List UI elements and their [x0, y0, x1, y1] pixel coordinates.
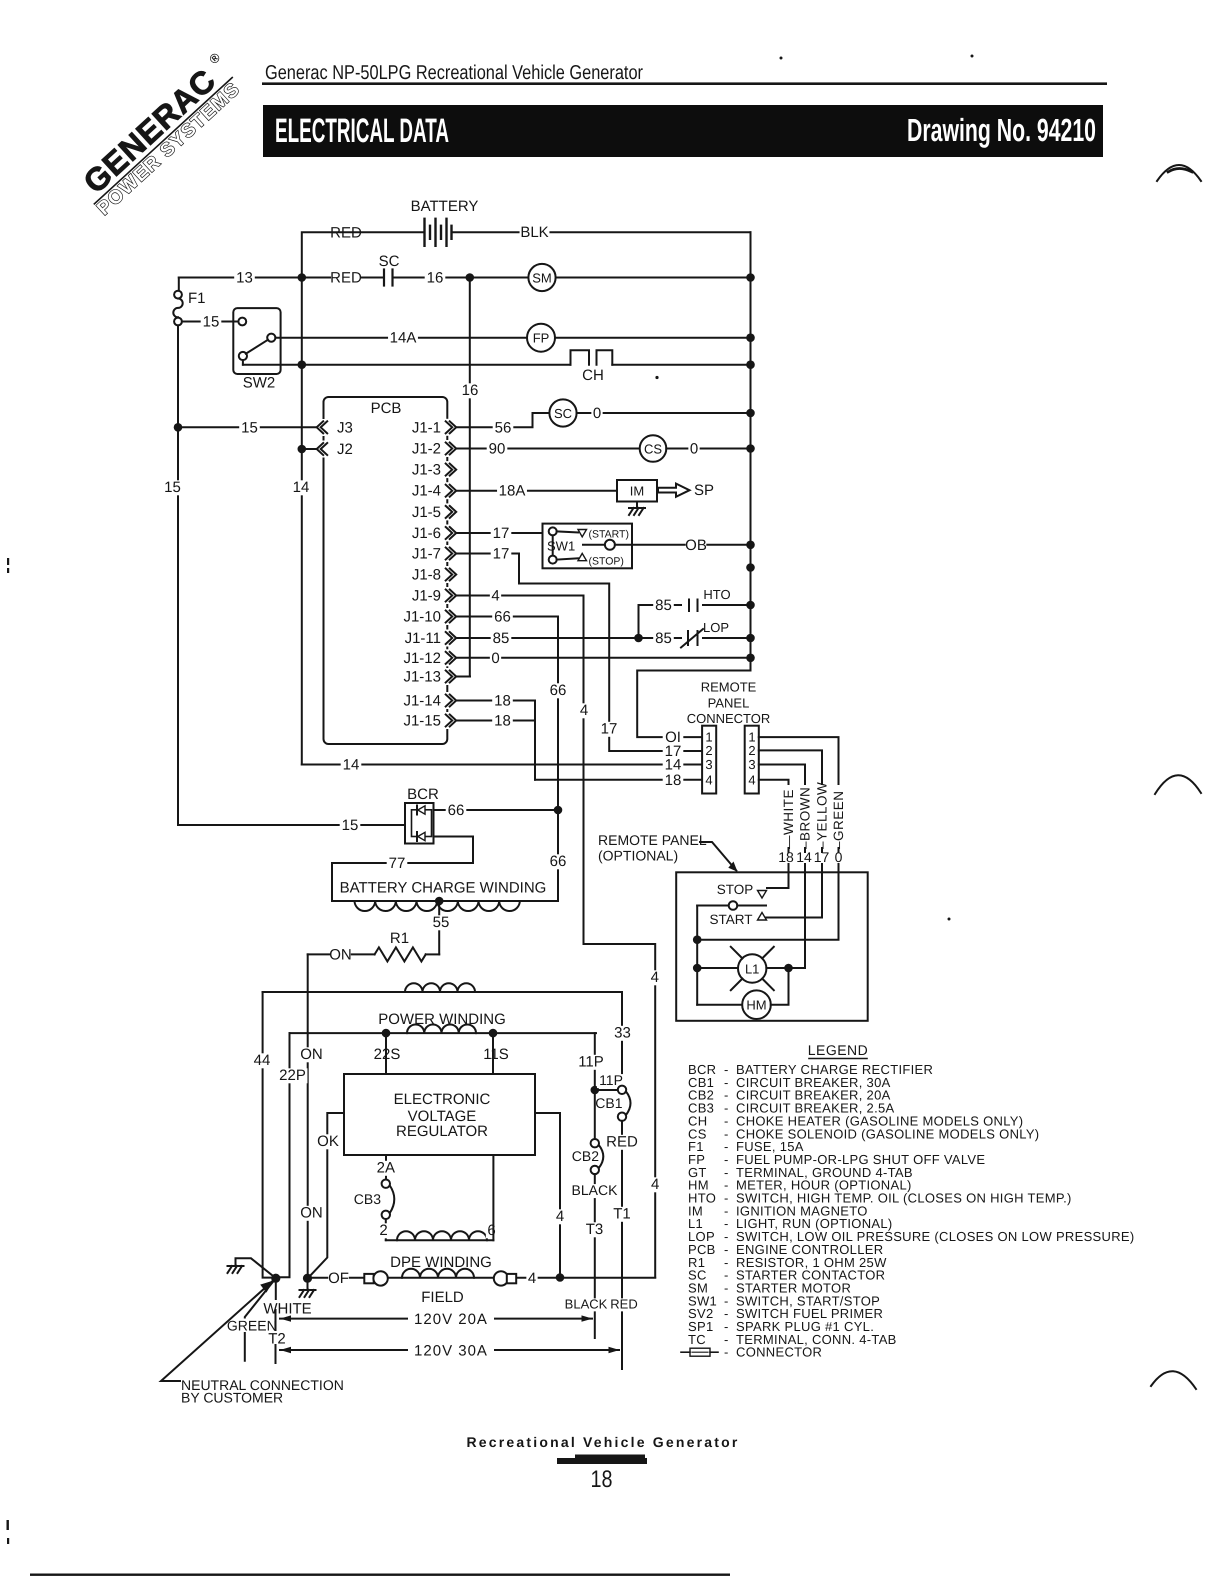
label 44 [252, 1053, 273, 1068]
svg-text:CONNECTOR: CONNECTOR [687, 711, 771, 726]
wire BCR net 66 [434, 809, 559, 811]
remote panel connector plug 2 [745, 726, 759, 794]
svg-text:J1-11: J1-11 [405, 630, 441, 647]
svg-text:START: START [709, 912, 752, 927]
junction 11S [489, 1029, 498, 1038]
label 15 (J3) [239, 421, 260, 436]
spark plug arrow SP1 [658, 484, 690, 497]
junction bus extra [746, 563, 755, 572]
svg-text:J1-3: J1-3 [412, 462, 441, 479]
svg-text:BCR: BCR [407, 786, 439, 803]
svg-text:SP: SP [694, 482, 714, 499]
svg-text:OB: OB [685, 537, 707, 554]
label 0 (CS) [688, 442, 699, 457]
speck [655, 376, 658, 379]
connector J3 [314, 419, 332, 436]
wire 14 to J2 [302, 448, 317, 450]
svg-text:16: 16 [427, 270, 444, 287]
connector pin J1-12 [444, 649, 457, 666]
svg-text:18: 18 [494, 693, 511, 710]
wire EVR right pin net 4 [535, 1113, 560, 1278]
DPE winding [386, 1239, 494, 1241]
SW1 start contact [549, 527, 557, 535]
label 17 (vertical) [599, 722, 620, 737]
wire SW1 net OB [615, 544, 751, 546]
junction field net 4 [556, 1273, 565, 1282]
svg-text:11P: 11P [578, 1054, 604, 1071]
svg-text:L1: L1 [745, 962, 759, 977]
fuse F1 [174, 291, 182, 299]
svg-text:4: 4 [748, 772, 755, 787]
switch common remote [697, 905, 729, 907]
label 0 (SC) [591, 406, 602, 421]
wire CB3 to DPE winding [385, 1219, 387, 1240]
junction 22S [382, 1029, 391, 1038]
svg-text:CB2: CB2 [572, 1148, 599, 1164]
svg-text:13: 13 [236, 270, 253, 287]
label 16 [425, 271, 446, 286]
label ON (low) [301, 1206, 322, 1221]
wire net 18 to pin 4 [535, 779, 702, 781]
dimension 120V 20A [280, 1318, 407, 1320]
junction node 16 [466, 273, 475, 282]
wire J1-2 to CS [456, 448, 640, 450]
svg-text:STOP: STOP [717, 882, 754, 897]
svg-text:16: 16 [462, 382, 479, 399]
svg-text:J1-8: J1-8 [412, 567, 441, 584]
svg-text:18A: 18A [499, 483, 526, 500]
label OF [328, 1271, 349, 1286]
label 66 (BCR) [446, 803, 467, 818]
svg-text:J1-2: J1-2 [412, 441, 441, 458]
battery BT [423, 219, 425, 246]
label 15 (F1-SW2) [201, 315, 222, 330]
svg-text:44: 44 [254, 1052, 271, 1069]
wire 33 vertical [621, 992, 623, 1086]
wire J1-1 to SC contactor [456, 413, 549, 427]
label WHITE [275, 1278, 277, 1299]
svg-text:4: 4 [651, 1176, 659, 1193]
label 17 (J1-7) [491, 547, 512, 562]
svg-text:17: 17 [493, 525, 510, 542]
legend row CONNECTOR symbol [681, 1351, 690, 1353]
svg-text:2: 2 [748, 743, 755, 758]
connector pin J1-1 [444, 419, 457, 436]
wire RED to battery [302, 232, 425, 277]
svg-text:0: 0 [690, 441, 698, 458]
starter contactor SC [549, 399, 576, 426]
junction 66 [554, 806, 563, 815]
svg-text:18: 18 [778, 849, 794, 865]
wire J1-13 to net 16 [456, 676, 470, 678]
label 2A [376, 1161, 397, 1176]
label 14A [388, 331, 418, 346]
svg-text:Generac NP-50LPG Recreational: Generac NP-50LPG Recreational Vehicle Ge… [265, 62, 643, 84]
footer bar [575, 1455, 645, 1460]
svg-text:J1-9: J1-9 [412, 588, 441, 605]
svg-text:SW1: SW1 [547, 539, 575, 554]
svg-text:(OPTIONAL): (OPTIONAL) [598, 848, 678, 864]
wire EVR pin 11S [492, 1033, 494, 1074]
connector pin J1-15 [444, 712, 457, 729]
connector pin J1-3 [444, 461, 457, 478]
label BLACK (T3) [572, 1184, 617, 1198]
svg-text:ELECTRICAL DATA: ELECTRICAL DATA [275, 112, 449, 150]
SW1 stop contact [549, 556, 557, 564]
svg-text:66: 66 [550, 853, 567, 870]
label T1 [612, 1207, 633, 1222]
svg-text:15: 15 [342, 817, 359, 834]
svg-text:OF: OF [328, 1270, 349, 1287]
battery charge winding [332, 900, 558, 902]
label 15 (vertical) [162, 480, 183, 495]
wire J1-14 net 18 [456, 701, 535, 780]
svg-text:4: 4 [491, 588, 499, 605]
svg-text:BATTERY CHARGE WINDING: BATTERY CHARGE WINDING [340, 880, 547, 897]
svg-text:TC: TC [688, 1332, 706, 1347]
junction node 14 [298, 360, 307, 369]
svg-text:R1: R1 [390, 930, 409, 947]
svg-text:90: 90 [489, 441, 506, 458]
wire net 13 / RED / 16 to SM [179, 277, 751, 279]
remote panel box [676, 872, 868, 1021]
label T3 [584, 1222, 605, 1237]
svg-text:14: 14 [796, 849, 812, 865]
junction bus 14 [746, 360, 755, 369]
wire net 14A to FP [275, 337, 750, 339]
wire J1-11 net 85 to LOP [456, 637, 750, 639]
header black bar [263, 105, 1103, 157]
wire J1-6 to SW1 [456, 532, 549, 534]
label GREEN [226, 1319, 266, 1333]
svg-text:PCB: PCB [371, 400, 402, 417]
switch LOP low oil pressure [682, 630, 702, 647]
svg-text:FP: FP [533, 331, 550, 346]
label BLACK (low) [565, 1298, 607, 1311]
svg-text:33: 33 [614, 1025, 631, 1042]
label 85 (LOP) [653, 631, 674, 646]
connector pin J1-6 [444, 525, 457, 542]
label 17 (pin 2) [663, 744, 684, 759]
svg-text:OI: OI [665, 729, 681, 746]
svg-text:—WHITE: —WHITE [781, 789, 796, 849]
svg-text:14: 14 [293, 479, 310, 496]
svg-text:J1-12: J1-12 [403, 650, 441, 667]
wire 85 branch to HTO [639, 605, 751, 638]
svg-text:RED: RED [610, 1297, 637, 1312]
wire 44 vertical [263, 992, 272, 1278]
wire GREEN [245, 1278, 276, 1361]
svg-text:F1: F1 [188, 290, 206, 307]
wire J1-12 net 0 [456, 657, 750, 659]
fuel pump FP [527, 324, 555, 352]
choke heater CH [571, 350, 590, 364]
svg-text:BLACK: BLACK [565, 1297, 608, 1312]
wire pin2 YELLOW [759, 750, 822, 784]
wire 15 to J3 [178, 426, 317, 428]
wire T1/RED vertical [621, 1121, 623, 1369]
wire BLK battery to bus [452, 231, 751, 233]
label PCB [364, 399, 409, 414]
label RED (T1) [607, 1135, 637, 1150]
wire R1 to tap [426, 953, 440, 955]
SW2 arm [246, 340, 268, 354]
junction bus CS-0 [746, 444, 755, 453]
svg-text:Drawing No. 94210: Drawing No. 94210 [907, 112, 1096, 148]
junction bus HTO [746, 601, 755, 610]
svg-text:BY CUSTOMER: BY CUSTOMER [181, 1390, 283, 1406]
svg-text:RED: RED [330, 225, 362, 242]
label 0 (J1-12) [490, 651, 501, 666]
svg-text:J1-6: J1-6 [412, 525, 441, 542]
label 4 (low vertical) [650, 1177, 661, 1192]
svg-text:BLACK: BLACK [572, 1182, 619, 1198]
label ON (R1) [330, 948, 351, 963]
svg-text:RED: RED [330, 270, 362, 287]
label 11P (CB1) [597, 1074, 625, 1088]
start contact triangle [758, 913, 767, 921]
label 14 (vertical) [291, 480, 312, 495]
svg-text:56: 56 [495, 419, 512, 436]
svg-text:J1-1: J1-1 [412, 419, 441, 436]
svg-text:14A: 14A [390, 330, 417, 347]
chassis ground (OF) [307, 1278, 309, 1289]
connector pin J1-7 [444, 545, 457, 562]
label 33 [612, 1026, 633, 1041]
page curl arc bottom right [1151, 1371, 1196, 1389]
ignition magneto IM [617, 480, 657, 502]
svg-text:ELECTRONIC: ELECTRONIC [394, 1091, 491, 1108]
svg-text:LEGEND: LEGEND [808, 1042, 869, 1058]
junction bus FP [746, 333, 755, 342]
junction 85 [634, 634, 643, 643]
page curl arc top right [1157, 165, 1201, 181]
wire vertical 16 [456, 278, 470, 677]
label 22P [278, 1068, 308, 1083]
wire BCR net 77 [332, 837, 473, 902]
connector pin J1-5 [444, 503, 457, 520]
connector pin J1-9 [444, 587, 457, 604]
svg-text:14: 14 [665, 757, 682, 774]
svg-text:0: 0 [835, 849, 843, 865]
wire T3/BLACK vertical [594, 1174, 596, 1338]
wire net 14 with choke heater [242, 360, 244, 365]
wire CS to bus net 0 [666, 448, 750, 450]
svg-text:CB3: CB3 [354, 1191, 381, 1207]
svg-text:15: 15 [203, 314, 220, 331]
svg-text:0: 0 [593, 405, 601, 422]
label ON (mid) [301, 1047, 322, 1062]
svg-text:PANEL: PANEL [708, 696, 750, 711]
svg-text:J1-13: J1-13 [403, 669, 441, 686]
svg-text:11S: 11S [483, 1046, 509, 1063]
SW1 common [552, 535, 554, 555]
left margin marks [7, 558, 9, 565]
wire J1-10 net 66 [456, 617, 558, 902]
Generac logo (rotated) [70, 49, 250, 220]
connector J2 [314, 441, 332, 458]
wire J1-4 to IM [456, 490, 617, 492]
junction bus SC-0 [746, 409, 755, 418]
wire net 14 to pin 3 [302, 764, 702, 766]
junction L1 left [693, 964, 702, 973]
svg-text:120V 20A: 120V 20A [414, 1311, 488, 1328]
label 56 [493, 421, 514, 436]
svg-text:SC: SC [554, 406, 572, 421]
wire EVR to CB3 [385, 1155, 387, 1180]
svg-text:J1-7: J1-7 [412, 546, 441, 563]
connector pin J1-4 [444, 482, 457, 499]
junction OF ground node [303, 1274, 312, 1283]
neutral connection callout [161, 1278, 276, 1381]
wire EVR pin 6 [492, 1155, 494, 1240]
svg-text:Recreational Vehicle Generator: Recreational Vehicle Generator [467, 1434, 740, 1450]
label 16 (vertical) [460, 383, 481, 398]
svg-text:ON: ON [329, 946, 352, 963]
label 55 [431, 915, 452, 930]
svg-text:CS: CS [644, 442, 662, 457]
engine controller PCB box [324, 397, 448, 744]
junction 14/J2 [298, 445, 307, 454]
winding center tap [435, 897, 444, 906]
field connector left [364, 1274, 373, 1283]
wire 22P vertical [280, 1033, 290, 1277]
svg-text:-: - [724, 1345, 728, 1360]
label 85 (J1-11) [491, 631, 512, 646]
circuit breaker CB1 [618, 1086, 626, 1094]
label 4 (mid vertical) [649, 970, 660, 985]
power winding lower [290, 1032, 597, 1034]
connector pin J1-10 [444, 608, 457, 625]
wire J1-9 net 4 [456, 596, 655, 1278]
junction bus LOP [746, 634, 755, 643]
svg-text:6: 6 [487, 1222, 495, 1239]
svg-text:4: 4 [651, 969, 659, 986]
svg-text:85: 85 [655, 630, 672, 647]
junction green/left [693, 935, 702, 944]
svg-text:2A: 2A [377, 1160, 395, 1177]
speck near legend [948, 918, 951, 921]
svg-text:POWER WINDING: POWER WINDING [378, 1011, 506, 1028]
svg-text:CONNECTOR: CONNECTOR [736, 1345, 822, 1360]
svg-text:4: 4 [528, 1270, 536, 1287]
svg-text:85: 85 [493, 630, 510, 647]
svg-text:(STOP): (STOP) [589, 556, 624, 568]
svg-text:FIELD: FIELD [421, 1289, 464, 1306]
label 90 [487, 442, 508, 457]
specks top [780, 57, 783, 60]
switch SW2 fuel primer [233, 308, 280, 374]
wire 11P to CB1 [595, 1089, 618, 1091]
label RED (low) [611, 1298, 637, 1311]
page curl arc middle right [1155, 775, 1201, 794]
wire pin4 WHITE [759, 780, 789, 784]
svg-text:17: 17 [493, 546, 510, 563]
svg-text:SC: SC [379, 253, 400, 270]
svg-text:66: 66 [494, 609, 511, 626]
svg-text:17: 17 [814, 849, 830, 865]
junction bus SM [746, 273, 755, 282]
svg-text:REMOTE PANEL: REMOTE PANEL [598, 832, 707, 848]
neutral junction node [271, 1274, 280, 1283]
junction 15/J3 [174, 423, 183, 432]
label OI [663, 730, 684, 745]
label 11P (vertical) [576, 1055, 606, 1070]
svg-text:(START): (START) [589, 529, 629, 541]
svg-text:WHITE: WHITE [263, 1301, 311, 1318]
svg-text:85: 85 [655, 597, 672, 614]
svg-text:IM: IM [630, 484, 644, 499]
svg-text:HTO: HTO [703, 587, 730, 602]
switch SW1 start/stop box [543, 524, 633, 569]
power winding upper [263, 991, 622, 993]
wire 15 to SW2 [182, 321, 239, 323]
wire pin3 BROWN [759, 765, 805, 785]
choke solenoid CS [640, 435, 667, 462]
svg-text:J3: J3 [337, 419, 353, 436]
label OB [686, 538, 707, 553]
svg-text:ON: ON [300, 1046, 323, 1063]
label 18A [497, 484, 527, 499]
label 6 [486, 1223, 497, 1238]
svg-text:17: 17 [601, 721, 618, 738]
svg-text:3: 3 [705, 757, 712, 772]
wire 11P vertical [594, 1033, 596, 1139]
label 85 (HTO) [653, 598, 674, 613]
junction node 13/RED [298, 273, 307, 282]
svg-text:CH: CH [582, 367, 604, 384]
bottom scan line [30, 1574, 730, 1576]
svg-text:T3: T3 [586, 1221, 604, 1238]
svg-text:4: 4 [556, 1208, 564, 1225]
remote panel left wire [696, 906, 698, 1005]
label 13 [234, 271, 255, 286]
wire bus wrap to OI pin 1 [637, 658, 750, 737]
svg-text:ON: ON [300, 1205, 323, 1222]
wire pin1 GREEN [759, 737, 839, 784]
svg-text:–YELLOW: –YELLOW [815, 782, 830, 849]
svg-text:J1-10: J1-10 [403, 609, 441, 626]
svg-text:18: 18 [591, 1466, 613, 1493]
junction L1 right net 14 [784, 964, 793, 973]
circuit breaker CB3 [382, 1180, 390, 1188]
svg-text:77: 77 [389, 855, 406, 872]
svg-text:4: 4 [705, 772, 712, 787]
svg-text:22P: 22P [279, 1067, 306, 1084]
run light L1 [697, 967, 738, 969]
svg-text:J1-4: J1-4 [412, 483, 441, 500]
label 17 (J1-6) [491, 526, 512, 541]
svg-text:REGULATOR: REGULATOR [396, 1123, 488, 1140]
svg-text:4: 4 [580, 702, 588, 719]
svg-text:3: 3 [748, 757, 755, 772]
svg-text:15: 15 [164, 479, 181, 496]
label 4 (field) [526, 1271, 537, 1286]
label 4 (vertical) [578, 703, 589, 718]
svg-text:14: 14 [343, 757, 360, 774]
label 66 (low vertical) [548, 854, 569, 869]
remote panel connector plug 1 [702, 726, 716, 794]
svg-text:18: 18 [665, 772, 682, 789]
ground at IM [636, 502, 638, 508]
label 4 (J1-9) [490, 589, 501, 604]
field winding [402, 1269, 474, 1278]
svg-text:T1: T1 [613, 1206, 631, 1223]
electronic voltage regulator EVR box [344, 1074, 535, 1155]
svg-text:BATTERY: BATTERY [411, 198, 479, 215]
svg-text:–BROWN: –BROWN [798, 787, 813, 849]
svg-text:66: 66 [448, 802, 465, 819]
